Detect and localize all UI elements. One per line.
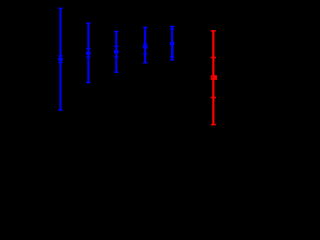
data point 5 marker — [170, 42, 175, 45]
data point 3 outer caps — [114, 32, 118, 73]
data point 6 inner caps — [211, 58, 216, 98]
data point 1 marker — [58, 58, 63, 61]
data point 4 (blue) error bar line — [144, 27, 146, 62]
data point 2 (blue) error bar line — [87, 23, 89, 83]
data point 4 inner caps — [143, 44, 147, 54]
data point 1 (blue) error bar line — [59, 8, 61, 110]
data point 1 inner caps — [58, 56, 62, 63]
data point 6 marker right fill — [213, 75, 216, 79]
data point 5 thick lower segment — [171, 45, 174, 57]
data point 3 inner caps — [114, 46, 118, 57]
data point 5 outer caps — [170, 26, 174, 59]
data point 6 marker (open square, right side filled) — [211, 76, 216, 80]
data point 4 outer caps — [143, 27, 147, 62]
data point 2 outer caps — [86, 23, 90, 83]
data point 3 marker — [114, 50, 119, 53]
data point 2 marker — [86, 52, 91, 55]
data point 2 inner caps — [86, 49, 90, 57]
data point 6 outer caps — [211, 31, 216, 125]
data point 6 (red) error bar line — [212, 31, 214, 125]
data point 3 (blue) error bar line — [115, 32, 117, 73]
data point 4 marker — [143, 46, 148, 49]
data point 5 inner caps — [170, 29, 174, 57]
data point 1 outer caps — [58, 8, 62, 110]
data point 5 (blue) error bar line — [171, 26, 173, 59]
